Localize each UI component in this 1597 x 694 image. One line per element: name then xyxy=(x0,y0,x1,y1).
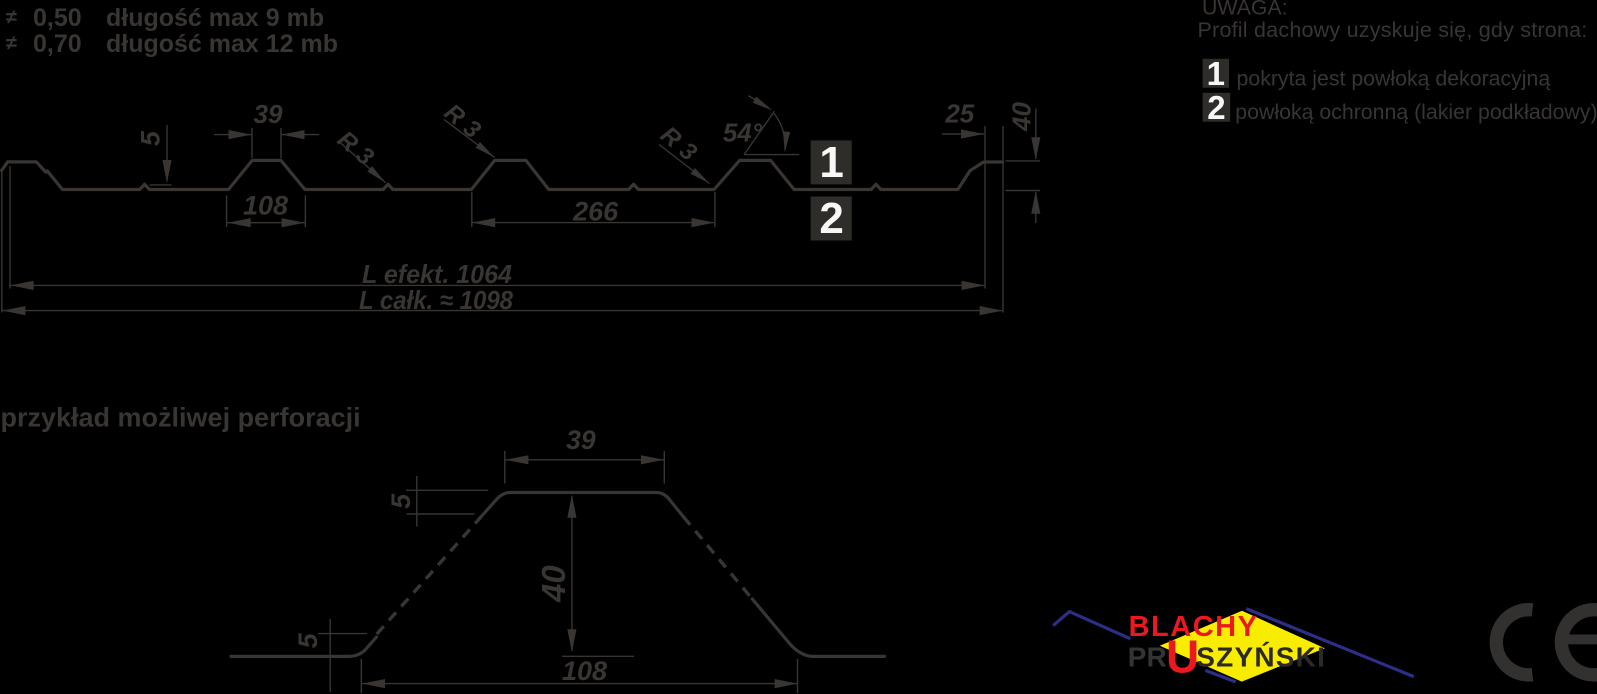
svg-text:L całk. ≈ 1098: L całk. ≈ 1098 xyxy=(359,285,513,315)
svg-text:1: 1 xyxy=(819,138,843,187)
detail dim 40 xyxy=(571,496,573,651)
svg-text:5: 5 xyxy=(293,632,323,648)
detail dim 5 bottom xyxy=(318,633,367,635)
legend box 2 xyxy=(1203,93,1231,122)
svg-text:SZYŃSKI: SZYŃSKI xyxy=(1196,641,1326,672)
extension lines right xyxy=(984,126,986,289)
svg-text:1: 1 xyxy=(1207,55,1225,92)
dim 40 profile height xyxy=(1006,160,1041,162)
leader R3 no.2 xyxy=(444,120,495,158)
svg-text:PR: PR xyxy=(1128,641,1167,672)
logo yellow rhombus xyxy=(1160,611,1325,682)
detail rib left slope dashed xyxy=(374,515,483,637)
svg-text:108: 108 xyxy=(243,191,288,221)
leader R3 no.1 xyxy=(339,142,386,183)
svg-text:≠: ≠ xyxy=(6,7,17,29)
dim 266 rib spacing xyxy=(471,192,473,227)
svg-text:długość max 9 mb: długość max 9 mb xyxy=(106,4,324,32)
svg-text:39: 39 xyxy=(566,425,596,455)
svg-text:długość max 12 mb: długość max 12 mb xyxy=(106,30,338,58)
main profile cross-section xyxy=(2,160,1003,189)
svg-text:266: 266 xyxy=(572,197,619,227)
detail dim 108 xyxy=(360,659,362,693)
svg-text:U: U xyxy=(1166,631,1199,683)
side marker box 2 xyxy=(811,197,852,241)
dim L efekt 1064 xyxy=(10,284,984,286)
svg-text:0,70: 0,70 xyxy=(33,30,82,58)
svg-text:25: 25 xyxy=(944,99,974,129)
svg-text:39: 39 xyxy=(254,99,283,129)
angle 54 deg xyxy=(744,154,799,156)
svg-text:2: 2 xyxy=(1207,89,1225,126)
logo blue line bottom xyxy=(1205,670,1235,682)
svg-text:108: 108 xyxy=(562,656,607,686)
detail rib bottom right solid xyxy=(752,599,884,656)
svg-text:Profil dachowy uzyskuje się, g: Profil dachowy uzyskuje się, gdy strona: xyxy=(1198,18,1588,42)
detail rib top xyxy=(483,493,683,517)
svg-text:40: 40 xyxy=(535,565,572,603)
logo blue line right xyxy=(1246,609,1414,677)
svg-text:UWAGA:: UWAGA: xyxy=(1202,0,1288,20)
detail rib bottom left solid xyxy=(231,637,377,656)
dim 5 capillary depth xyxy=(166,125,168,181)
svg-text:5: 5 xyxy=(136,130,166,146)
logo blue roof line left xyxy=(1053,612,1130,639)
dim 108 rib base width xyxy=(226,196,228,228)
leader R3 no.3 xyxy=(659,145,710,184)
legend box 1 xyxy=(1203,59,1229,88)
CE mark C xyxy=(1496,610,1532,675)
CE mark E xyxy=(1561,610,1597,675)
svg-text:54°: 54° xyxy=(723,118,763,148)
svg-text:0,50: 0,50 xyxy=(33,4,82,32)
svg-text:2: 2 xyxy=(819,194,843,243)
extension lines left xyxy=(9,166,11,289)
svg-text:≠: ≠ xyxy=(6,33,17,55)
svg-text:40: 40 xyxy=(1006,102,1036,132)
svg-text:5: 5 xyxy=(386,493,416,509)
detail dim 39 xyxy=(504,451,506,484)
svg-text:powłoką ochronną (lakier podkł: powłoką ochronną (lakier podkładowy) xyxy=(1235,100,1597,124)
detail rib right slope dashed xyxy=(681,514,752,599)
svg-text:pokryta jest powłoką dekoracyj: pokryta jest powłoką dekoracyjną xyxy=(1237,67,1551,91)
dim L calk 1098 xyxy=(2,310,1002,312)
dim 39 rib top width xyxy=(251,128,253,158)
detail dim 5 top xyxy=(406,489,488,491)
dim 25 edge shelf xyxy=(942,133,984,135)
svg-text:przykład możliwej perforacji: przykład możliwej perforacji xyxy=(1,403,361,433)
side marker box 1 xyxy=(811,140,852,184)
